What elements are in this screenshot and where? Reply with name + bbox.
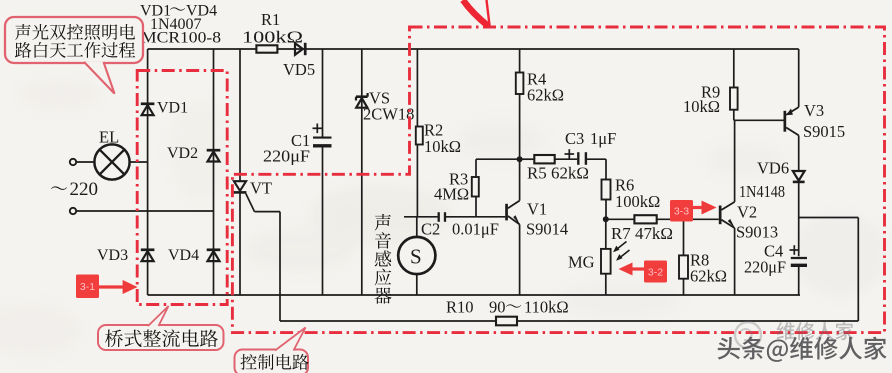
wire R10 right vertical xyxy=(857,218,859,322)
svg-text:VD6: VD6 xyxy=(757,159,789,178)
wire lamp right lead xyxy=(130,161,148,163)
resistor R5 xyxy=(534,155,554,163)
resistor R10 xyxy=(496,317,517,326)
junction node MG xyxy=(603,216,609,222)
svg-text:R1: R1 xyxy=(261,10,280,29)
wire R2 to microphone node xyxy=(416,145,418,217)
wire bridge right vertical xyxy=(213,49,215,295)
wire R9 branch xyxy=(733,49,735,88)
diode VD5 xyxy=(295,43,303,55)
capacitor C2 xyxy=(438,212,440,222)
svg-text:VD5: VD5 xyxy=(283,60,315,79)
svg-text:C3: C3 xyxy=(565,129,584,148)
svg-text:1N4148: 1N4148 xyxy=(739,182,785,201)
wire R3 branch xyxy=(475,159,477,177)
resistor R4 xyxy=(516,73,524,95)
resistor R9 xyxy=(730,88,738,110)
microphone S drop xyxy=(416,217,418,237)
wire node to R5 xyxy=(520,158,535,160)
svg-text:V2: V2 xyxy=(737,203,757,222)
wire R5 to C3 xyxy=(555,158,578,160)
dark watermark toutiao xyxy=(718,337,887,362)
diode VD6 xyxy=(793,171,805,181)
callout bridge rectifier label xyxy=(98,325,224,350)
svg-text:S9014: S9014 xyxy=(526,220,568,239)
svg-text:R7 47kΩ: R7 47kΩ xyxy=(611,224,673,243)
svg-text:10kΩ: 10kΩ xyxy=(683,97,720,116)
red arrow 3-3 to V2 xyxy=(693,206,704,209)
resistor R8 xyxy=(683,219,685,255)
capacitor C3 xyxy=(577,152,579,165)
red arrow 3-2 to MG xyxy=(631,267,644,270)
wire R4 branch xyxy=(519,49,521,73)
wire VS branch xyxy=(361,49,363,295)
wire microphone to bottom rail xyxy=(416,274,418,295)
svg-text:1μF: 1μF xyxy=(590,129,616,148)
wire node to R10 right vertical xyxy=(799,217,859,219)
svg-text:3-2: 3-2 xyxy=(648,267,663,279)
svg-text:MG: MG xyxy=(568,253,595,272)
svg-text:110kΩ: 110kΩ xyxy=(524,298,569,317)
svg-text:10kΩ: 10kΩ xyxy=(424,137,461,156)
svg-text:90: 90 xyxy=(489,298,506,317)
capacitor C1 xyxy=(313,137,332,139)
wire lamp left lead xyxy=(76,161,94,163)
svg-text:VT: VT xyxy=(250,179,272,198)
wire R9 to V3 base node xyxy=(733,110,735,121)
wire VT cathode to bottom rail xyxy=(239,192,241,295)
red box 3-3 xyxy=(670,200,693,222)
wire VT anode drop xyxy=(239,49,241,181)
diode VD4 xyxy=(207,248,221,251)
red arrow 3-1 to bridge xyxy=(99,285,124,288)
svg-text:4MΩ: 4MΩ xyxy=(434,185,469,204)
svg-text:S: S xyxy=(410,245,422,269)
svg-text:VD2: VD2 xyxy=(167,145,198,162)
svg-text:MCR100-8: MCR100-8 xyxy=(141,30,221,47)
wire top supply rail xyxy=(148,48,799,50)
red arrow top xyxy=(463,0,488,26)
svg-text:0.01μF: 0.01μF xyxy=(452,220,499,239)
diode VD2 xyxy=(207,149,221,152)
light watermark text xyxy=(777,322,795,340)
resistor R7 xyxy=(634,215,656,223)
callout control circuit label xyxy=(235,350,309,373)
svg-text:220μF: 220μF xyxy=(744,258,786,277)
wire R7 to V2 base xyxy=(657,218,719,220)
red box 3-2 xyxy=(644,261,667,283)
wire bridge left vertical xyxy=(147,49,149,295)
capacitor C4 xyxy=(791,257,807,259)
red dash-dot bridge rectifier box xyxy=(137,71,227,305)
light arrows into MG xyxy=(615,242,627,252)
lamp EL xyxy=(94,144,129,179)
svg-text:EL: EL xyxy=(99,128,119,147)
svg-text:R5 62kΩ: R5 62kΩ xyxy=(527,164,589,183)
light watermark logo xyxy=(735,322,761,348)
svg-text:100kΩ: 100kΩ xyxy=(242,28,303,47)
svg-text:V1: V1 xyxy=(527,200,547,219)
transistor V2 xyxy=(719,206,722,225)
diode VD3 xyxy=(141,248,155,251)
svg-text:62kΩ: 62kΩ xyxy=(527,86,564,105)
svg-text:VD1: VD1 xyxy=(157,100,188,117)
junction node V1 collector xyxy=(517,156,523,162)
microphone S xyxy=(398,237,435,274)
svg-text:3-1: 3-1 xyxy=(80,281,95,293)
wire node to R3 xyxy=(476,158,520,160)
svg-text:220: 220 xyxy=(70,179,99,200)
label ~220 mains xyxy=(51,186,67,189)
wire C1 branch upper xyxy=(322,49,324,137)
red box 3-1 xyxy=(76,275,99,299)
wire C3 to R6 xyxy=(586,158,606,160)
red dash-dot control circuit outline xyxy=(232,27,884,333)
terminal lower AC input xyxy=(70,208,76,214)
diode VD1 xyxy=(141,102,155,105)
terminal upper AC input xyxy=(70,159,76,165)
wire R6 to node xyxy=(605,200,607,220)
photoresistor MG xyxy=(605,219,607,249)
svg-text:VD3: VD3 xyxy=(97,247,128,264)
wire neutral to bridge xyxy=(76,210,213,212)
transistor V1 xyxy=(505,204,508,221)
svg-text:3-3: 3-3 xyxy=(674,206,689,218)
svg-text:100kΩ: 100kΩ xyxy=(615,192,660,211)
resistor R1 xyxy=(256,45,277,52)
wire VD6 to C4 node xyxy=(798,182,800,256)
wire C4 to bottom rail xyxy=(798,266,800,295)
svg-text:VD4: VD4 xyxy=(168,247,199,264)
wire bottom rail xyxy=(148,294,800,296)
zener VS xyxy=(356,95,368,98)
wire R2 branch upper xyxy=(416,49,418,127)
wire VT gate path xyxy=(246,194,255,212)
resistor R6 xyxy=(602,180,611,200)
wire R10 row xyxy=(280,320,496,322)
svg-text:S9013: S9013 xyxy=(736,223,778,242)
resistor R3 xyxy=(472,177,479,197)
resistor R2 xyxy=(416,127,423,145)
svg-text:R10: R10 xyxy=(446,298,474,317)
callout bubble daytime process xyxy=(5,17,143,63)
svg-text:220μF: 220μF xyxy=(263,147,310,166)
wire C1 branch lower xyxy=(322,147,324,295)
label sound sensor vertical xyxy=(375,214,391,231)
thyristor VT xyxy=(234,181,246,191)
svg-text:62kΩ: 62kΩ xyxy=(690,267,727,286)
svg-text:S9015: S9015 xyxy=(803,122,845,141)
transistor V3 xyxy=(784,111,787,132)
svg-text:C2: C2 xyxy=(421,220,440,239)
wire C2 to V1 base xyxy=(445,216,505,218)
wire node to R7 xyxy=(606,218,635,220)
svg-text:2CW18: 2CW18 xyxy=(363,105,414,124)
svg-text:V3: V3 xyxy=(804,101,824,120)
